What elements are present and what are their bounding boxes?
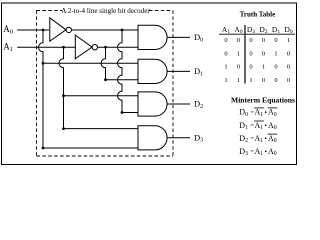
wire A0-inverted output	[72, 29, 139, 31]
svg-text:0: 0	[249, 64, 252, 71]
truth table data rows	[224, 37, 290, 84]
wire gate3 bottom input (nA0)	[122, 112, 138, 114]
svg-text:Truth Table: Truth Table	[240, 11, 275, 19]
junction gate2 top	[42, 62, 45, 65]
svg-text:1: 1	[262, 64, 265, 71]
junction gate4 top	[62, 127, 65, 130]
svg-text:1: 1	[224, 64, 227, 71]
AND gate U3 (D0)	[138, 25, 167, 49]
wire gate2 bottom input (nA1)	[106, 79, 139, 81]
wire A0 input	[17, 29, 49, 31]
inverter U1 (A0)	[50, 18, 72, 41]
wire A0 vertical bus with hop	[39, 30, 44, 148]
svg-text:0: 0	[262, 37, 265, 44]
svg-text:0: 0	[224, 37, 227, 44]
svg-text:1: 1	[249, 77, 252, 84]
truth table header	[222, 25, 293, 35]
wire D3 output	[167, 137, 190, 139]
wire A1 input	[17, 46, 75, 48]
svg-text:0: 0	[287, 77, 290, 84]
junction A0 bus top	[42, 29, 45, 32]
junction nA1 bus top	[104, 46, 107, 49]
inverter U2 (A1)	[75, 35, 97, 59]
svg-text:0: 0	[274, 77, 277, 84]
minterm equation D2	[239, 134, 277, 144]
junction dots	[42, 29, 124, 150]
svg-text:1: 1	[287, 37, 290, 44]
wire nA0 vertical bus with hops	[118, 30, 123, 113]
truth table header rule	[219, 33, 295, 35]
svg-text:Minterm Equations: Minterm Equations	[231, 95, 295, 104]
wire nA1 vertical bus with hop	[101, 47, 105, 79]
svg-text:0: 0	[262, 50, 265, 57]
AND gate U4 (D1)	[138, 59, 167, 83]
svg-text:0: 0	[249, 50, 252, 57]
svg-text:0: 0	[249, 37, 252, 44]
svg-text:0: 0	[287, 50, 290, 57]
svg-text:1: 1	[237, 50, 240, 57]
minterm equation D0	[239, 108, 277, 118]
junction gate3 bottom	[121, 111, 124, 114]
svg-text:1: 1	[237, 77, 240, 84]
svg-text:1: 1	[224, 77, 227, 84]
truth table column separator	[244, 25, 246, 84]
wire gate3 top input (A1)	[64, 95, 139, 97]
junction gate4 bottom	[42, 147, 45, 150]
outer frame	[2, 3, 297, 165]
decoder boundary (dashed box)	[37, 11, 174, 157]
wire D0 output	[167, 36, 190, 38]
wire gate2 top input (A0)	[43, 62, 138, 64]
wire A1 vertical bus with hop	[59, 47, 63, 128]
svg-text:0: 0	[274, 64, 277, 71]
svg-text:0: 0	[262, 77, 265, 84]
svg-text:0: 0	[224, 50, 227, 57]
svg-text:0: 0	[237, 37, 240, 44]
svg-text:0: 0	[274, 37, 277, 44]
wire gate4 top input (A1)	[64, 128, 139, 130]
junction A1 bus top	[62, 46, 65, 49]
svg-text:0: 0	[237, 64, 240, 71]
wire D1 output	[167, 70, 190, 72]
AND gate U6 (D3)	[138, 126, 167, 150]
svg-text:A 2-to-4 line single bit decod: A 2-to-4 line single bit decoder	[61, 7, 150, 15]
svg-text:0: 0	[287, 64, 290, 71]
wire D2 output	[167, 103, 190, 105]
junction gate3 top	[62, 94, 65, 97]
minterm equation D1	[239, 121, 276, 131]
AND gate U5 (D2)	[138, 92, 167, 116]
svg-text:1: 1	[274, 50, 277, 57]
minterm equation D3	[239, 147, 276, 157]
wire A1-inverted output	[98, 46, 139, 48]
junction nA0 bus top	[121, 29, 124, 32]
wire gate4 bottom input (A0)	[43, 147, 138, 149]
junction gate2 bottom	[104, 78, 107, 81]
